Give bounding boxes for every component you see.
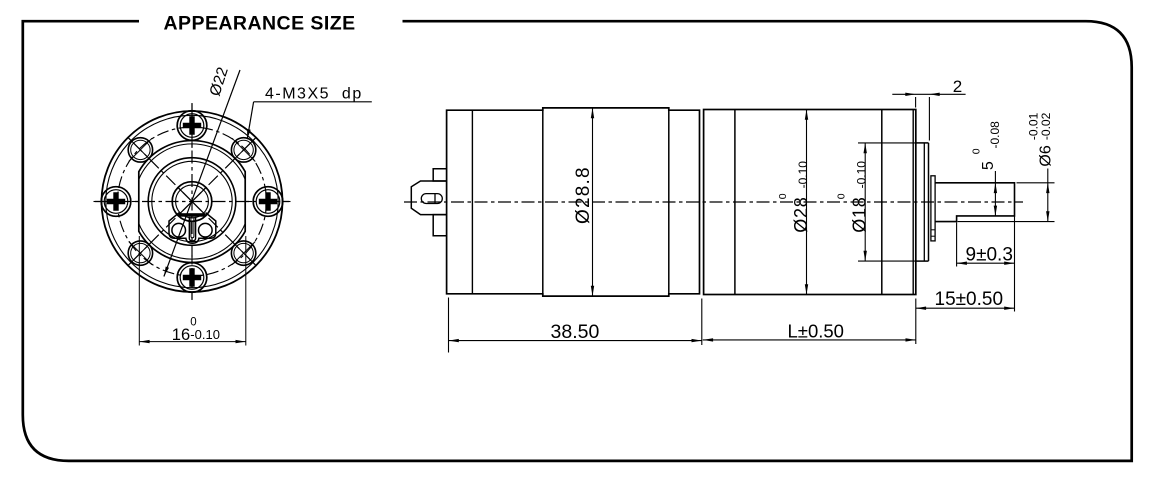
- svg-text:2: 2: [953, 77, 962, 96]
- svg-text:0: 0: [970, 148, 982, 154]
- svg-text:4-M3X5 dp: 4-M3X5 dp: [265, 86, 363, 103]
- svg-text:9±0.3: 9±0.3: [966, 244, 1013, 265]
- svg-text:Ø28.8: Ø28.8: [573, 166, 594, 224]
- svg-text:38.50: 38.50: [551, 321, 600, 343]
- svg-text:APPEARANCE SIZE: APPEARANCE SIZE: [164, 13, 356, 35]
- svg-text:-0.10: -0.10: [796, 161, 810, 189]
- svg-text:0: 0: [777, 193, 789, 199]
- svg-text:-0.10: -0.10: [190, 327, 220, 342]
- svg-text:16: 16: [172, 326, 190, 344]
- svg-text:L±0.50: L±0.50: [788, 321, 844, 342]
- svg-text:5: 5: [980, 161, 997, 170]
- svg-text:15±0.50: 15±0.50: [935, 289, 1004, 310]
- svg-text:-0.08: -0.08: [988, 121, 1002, 149]
- svg-text:Ø18: Ø18: [850, 196, 870, 232]
- svg-text:-0.02: -0.02: [1039, 112, 1053, 140]
- svg-text:Ø6: Ø6: [1038, 145, 1055, 166]
- svg-text:0: 0: [836, 193, 848, 199]
- svg-text:Ø28: Ø28: [791, 196, 811, 232]
- svg-text:-0.10: -0.10: [855, 161, 869, 189]
